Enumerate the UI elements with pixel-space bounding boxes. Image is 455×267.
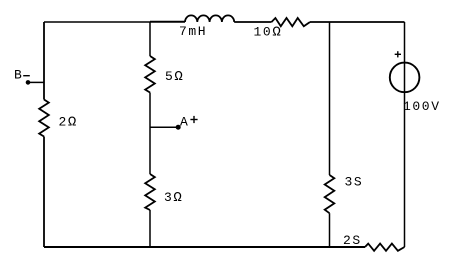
resistor 5ohm xyxy=(145,56,155,93)
svg-text:3S: 3S xyxy=(345,175,364,190)
terminal B dot xyxy=(26,80,31,85)
resistor 10ohm xyxy=(272,18,311,26)
resistor 2S xyxy=(365,244,405,251)
wire A stub xyxy=(150,126,178,128)
svg-text:B: B xyxy=(14,68,23,83)
wire middle branch xyxy=(149,22,151,247)
wire bottom xyxy=(44,246,365,248)
voltage source V1 circle xyxy=(390,63,420,93)
resistor 3S xyxy=(325,175,335,213)
wire top-middle segment xyxy=(234,21,271,23)
label A plus sign xyxy=(190,116,197,123)
svg-text:100V: 100V xyxy=(403,99,441,114)
wire right branch top xyxy=(404,22,406,247)
resistor 3ohm xyxy=(145,174,155,210)
wire top-left segment xyxy=(44,21,185,23)
svg-text:2S: 2S xyxy=(343,233,362,248)
voltage source plus sign xyxy=(395,51,401,57)
wire B stub xyxy=(28,81,44,83)
resistor 2ohm xyxy=(39,100,49,137)
svg-text:10Ω: 10Ω xyxy=(254,25,283,41)
wire 3S branch xyxy=(329,22,331,247)
svg-text:2Ω: 2Ω xyxy=(59,115,78,131)
terminal A dot xyxy=(176,125,181,130)
svg-text:3Ω: 3Ω xyxy=(164,190,183,206)
svg-text:5Ω: 5Ω xyxy=(165,69,184,85)
label B minus sign xyxy=(23,75,30,77)
wire top-right segment xyxy=(310,21,405,23)
wire left branch xyxy=(43,22,45,247)
inductor L1 7mH xyxy=(185,15,234,22)
svg-text:7mH: 7mH xyxy=(179,24,207,39)
svg-text:A: A xyxy=(180,114,189,129)
